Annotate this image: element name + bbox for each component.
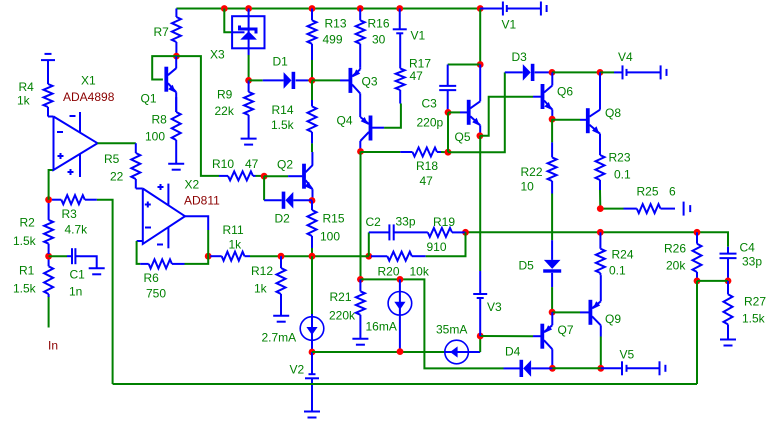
wire D5 anode lead	[551, 240, 553, 260]
label V3	[487, 300, 502, 314]
svg-text:AD811: AD811	[184, 194, 220, 208]
label R26 value	[666, 259, 686, 273]
wire V4 lead blue	[614, 71, 623, 73]
label R17	[409, 57, 431, 71]
label R11 value	[229, 238, 243, 252]
label R10 value	[245, 157, 259, 171]
wire to X1 plus input	[49, 170, 54, 200]
resistor R15	[308, 201, 317, 249]
junction D1/R13/R14/Q3-base	[309, 77, 316, 84]
svg-text:30: 30	[372, 33, 386, 47]
svg-text:C4: C4	[740, 241, 756, 255]
svg-text:Q2: Q2	[277, 158, 293, 172]
wire C3 node down to R18 node	[447, 112, 449, 152]
label X1	[81, 74, 96, 88]
wire Q2 base	[264, 175, 288, 177]
resistor R1	[44, 256, 53, 297]
wire V1a top lead	[399, 9, 401, 30]
junction V3/Q7-base/I3	[477, 333, 484, 340]
wire X3 vertical pin	[248, 9, 250, 56]
wire Q6 base lead	[533, 96, 541, 98]
resistor R22	[548, 142, 557, 193]
wire Q7c to Q9c	[552, 367, 600, 369]
svg-text:R2: R2	[20, 216, 36, 230]
resistor R18	[400, 148, 441, 157]
label R18 value	[420, 174, 434, 188]
resistor R13	[308, 9, 317, 61]
label V1 top	[502, 18, 517, 32]
svg-text:R1: R1	[19, 263, 35, 277]
svg-text:R7: R7	[154, 25, 170, 39]
capacitor C1	[67, 248, 80, 264]
resistor R17	[396, 33, 405, 103]
wire Q9 base	[552, 311, 580, 313]
svg-text:910: 910	[427, 240, 447, 254]
junction Q5-emitter	[477, 132, 484, 139]
svg-text:V1: V1	[502, 18, 517, 32]
label Q4	[337, 114, 353, 128]
resistor R23	[596, 150, 605, 190]
junction D3/Q6-collector	[549, 69, 556, 76]
label R6	[144, 271, 160, 285]
junction rail/R16	[357, 5, 364, 12]
junction R9/D1	[245, 77, 252, 84]
wire V2 node to 16mA node	[312, 351, 445, 353]
wire Q3 base	[312, 79, 340, 81]
wire D2 anode lead	[293, 199, 312, 201]
wire Q1 base loop	[152, 56, 176, 79]
svg-text:2.7mA: 2.7mA	[262, 331, 297, 345]
wire Q8 base lead	[580, 119, 586, 121]
wire X3 left pin entry	[224, 9, 232, 33]
wire node A up	[368, 232, 370, 256]
svg-text:R27: R27	[744, 295, 766, 309]
ground R8 ground	[168, 164, 184, 170]
diode D5	[543, 260, 561, 273]
svg-text:R20: R20	[378, 265, 400, 279]
svg-text:ADA4898: ADA4898	[63, 90, 115, 104]
svg-text:In: In	[48, 339, 58, 353]
wire R5 to X2 plus input	[136, 188, 143, 190]
label R12 value	[254, 282, 268, 296]
wire Q4 base lead	[372, 127, 384, 129]
wire Q4col node down to R21 node	[360, 152, 362, 280]
svg-text:499: 499	[323, 33, 343, 47]
wire top rail	[176, 8, 480, 10]
svg-text:47: 47	[245, 157, 259, 171]
capacitor C2	[369, 224, 394, 240]
svg-text:X2: X2	[185, 178, 200, 192]
wire Q4col to R18	[361, 151, 401, 153]
svg-text:1.5k: 1.5k	[13, 282, 37, 296]
label C2	[366, 215, 382, 229]
terminal V5 end	[660, 361, 666, 375]
junction R26 top	[694, 229, 701, 236]
svg-text:220k: 220k	[329, 309, 356, 323]
svg-text:22k: 22k	[215, 104, 235, 118]
svg-text:R13: R13	[325, 17, 347, 31]
label R20 value	[410, 265, 430, 279]
svg-text:R5: R5	[104, 152, 120, 166]
junction C3/Q5-base/R18col	[445, 109, 452, 116]
transistor Q3	[349, 68, 361, 94]
svg-text:R3: R3	[62, 207, 78, 221]
junction R15/I1	[309, 253, 316, 260]
transistor Q4	[360, 116, 372, 142]
junction rail/R13	[309, 5, 316, 12]
resistor R19	[394, 228, 466, 237]
svg-text:R18: R18	[416, 159, 438, 173]
label V5	[620, 348, 635, 362]
current source I2 16mA	[388, 279, 412, 351]
wire D5 to Q7/Q9 node	[551, 287, 553, 312]
label R23	[609, 151, 631, 165]
svg-text:R26: R26	[664, 242, 686, 256]
svg-text:R14: R14	[272, 103, 294, 117]
label R3	[62, 207, 78, 221]
resistor R26	[693, 232, 702, 281]
label D2	[275, 212, 291, 226]
label V2	[290, 363, 305, 377]
svg-text:R21: R21	[330, 290, 352, 304]
junction R23/R24 output node	[597, 229, 604, 236]
label R27	[744, 295, 766, 309]
label R8	[152, 113, 168, 127]
wire bottom feedback rail	[113, 383, 697, 385]
ground R21 ground	[352, 339, 368, 345]
label R15 value	[320, 230, 340, 244]
label R25 value	[669, 185, 676, 199]
label R26	[664, 242, 686, 256]
voltage source V1 (left)	[393, 29, 407, 33]
label R5 value	[110, 170, 124, 184]
wire X2 feedback loop	[137, 241, 141, 264]
wire I3 right up	[479, 336, 481, 352]
junction R26 bottom	[694, 278, 701, 285]
wire R10 to Q2 base node	[256, 175, 265, 177]
wire D3 anode lead	[505, 71, 523, 73]
label R13 value	[323, 33, 343, 47]
wire Q3-collector to Q4-emitter	[359, 93, 361, 117]
svg-text:16mA: 16mA	[366, 320, 397, 334]
wire Q3 base lead	[340, 79, 349, 81]
label R25	[637, 185, 659, 199]
terminal V1 top end	[541, 2, 547, 16]
label C2 value	[396, 215, 416, 229]
label R20	[378, 265, 400, 279]
wire Q8 base	[552, 119, 580, 121]
label R9 value	[215, 104, 235, 118]
junction X2out/R11/R6	[205, 253, 212, 260]
svg-text:1.5k: 1.5k	[13, 234, 37, 248]
ground R12 ground	[273, 316, 289, 322]
wire X2 output	[185, 216, 208, 230]
label D5	[519, 259, 535, 273]
wire D3 node to V4 node	[552, 71, 600, 73]
label R18	[416, 159, 438, 173]
wire V2 top lead	[311, 352, 313, 374]
junction mid node A	[365, 253, 372, 260]
label R21	[330, 290, 352, 304]
svg-text:V2: V2	[290, 363, 305, 377]
svg-text:33p: 33p	[742, 255, 762, 269]
wire node to R14	[311, 80, 313, 100]
junction R7/Q1	[173, 53, 180, 60]
subcircuit X3 box	[232, 16, 264, 48]
diode X3 zener	[232, 26, 257, 40]
wire V1b mid	[507, 8, 541, 10]
junction I2 top	[397, 276, 404, 283]
junction D5/Q7-emitter/Q9-base	[549, 309, 556, 316]
resistor R20	[371, 252, 426, 261]
wire Q5 base	[448, 111, 460, 113]
wire Q2 collector lead	[311, 152, 313, 166]
wire R25 stub	[600, 208, 623, 210]
svg-text:1n: 1n	[69, 285, 82, 299]
wire Q7 base wire	[480, 335, 533, 337]
label In	[48, 339, 58, 353]
wire R22 to D5	[551, 194, 553, 241]
svg-text:R15: R15	[323, 212, 345, 226]
wire output row	[466, 232, 729, 247]
junction rail/V1a	[396, 5, 403, 12]
label I1 value	[262, 331, 297, 345]
svg-text:D3: D3	[512, 50, 528, 64]
label R12	[251, 264, 273, 278]
diode D1	[284, 72, 296, 89]
svg-text:10: 10	[521, 180, 535, 194]
wire D1 to column	[308, 79, 312, 81]
svg-text:6: 6	[669, 185, 676, 199]
label R22 value	[521, 180, 535, 194]
svg-text:X1: X1	[81, 74, 96, 88]
label Q7	[558, 323, 574, 337]
transistor Q7	[540, 324, 552, 350]
svg-text:D5: D5	[519, 259, 535, 273]
voltage source V4	[623, 65, 627, 79]
wire R4 to X1 minus input	[48, 116, 54, 118]
label R3 value	[65, 223, 89, 237]
ground R27 ground	[720, 340, 736, 346]
svg-text:R12: R12	[251, 264, 273, 278]
resistor R5	[131, 143, 140, 188]
resistor R14	[308, 100, 317, 143]
resistor R3	[52, 195, 97, 204]
wire Q9 collector lead	[600, 325, 602, 336]
wire Q2 emitter lead	[312, 189, 314, 200]
wire R3 to feedback	[97, 200, 113, 384]
transistor Q2	[302, 164, 312, 190]
wire C1 stub	[49, 255, 67, 257]
svg-text:22: 22	[110, 170, 124, 184]
junction R25 tee	[597, 205, 604, 212]
label R11	[223, 223, 244, 237]
diode D2	[282, 192, 294, 209]
label V1 left	[411, 29, 426, 43]
svg-text:D4: D4	[505, 345, 521, 359]
label C4 value	[742, 255, 762, 269]
op-amp X1	[54, 112, 98, 177]
transistor Q9	[589, 300, 601, 326]
capacitor C4	[720, 247, 737, 281]
resistor R21	[356, 279, 365, 338]
svg-text:47: 47	[410, 69, 424, 83]
wire Q6 collector lead	[551, 72, 553, 85]
svg-text:47: 47	[420, 174, 434, 188]
svg-text:1k: 1k	[17, 94, 31, 108]
svg-text:0.1: 0.1	[609, 264, 626, 278]
label Q9	[605, 312, 621, 326]
label R2 value	[13, 234, 37, 248]
junction R10/Q2base/D2	[261, 173, 268, 180]
junction C3/Q5-collector	[477, 61, 484, 68]
wire R15 node down	[311, 256, 313, 314]
svg-text:Q1: Q1	[141, 92, 157, 106]
op-amp X2	[143, 184, 185, 249]
svg-text:220p: 220p	[417, 116, 444, 130]
label Q8	[605, 106, 621, 120]
label R7	[154, 25, 170, 39]
wire Q1 collector lead	[175, 56, 177, 68]
transistor Q1	[164, 67, 176, 93]
label R1	[19, 263, 35, 277]
wire Q4 collector lead	[359, 141, 361, 152]
label R15	[323, 212, 345, 226]
svg-text:1k: 1k	[254, 282, 268, 296]
wire feedback down right	[696, 281, 698, 384]
ground R9 ground	[241, 139, 257, 145]
label R1 value	[13, 282, 37, 296]
resistor R27	[724, 281, 733, 340]
junction I1/V2	[309, 349, 316, 356]
voltage source V offset	[41, 54, 55, 60]
svg-text:R4: R4	[19, 80, 35, 94]
wire up to D3 anode	[448, 72, 505, 152]
wire V2 bottom lead	[311, 378, 313, 411]
wire Q9 base lead	[580, 311, 589, 313]
wire X2 minus jog	[137, 240, 143, 242]
label Q5	[455, 130, 471, 144]
svg-text:R6: R6	[144, 271, 160, 285]
transistor Q6	[541, 84, 553, 110]
wire input stub In	[48, 296, 50, 328]
junction R2/R3/X1+	[45, 196, 52, 203]
label Q6	[557, 85, 573, 99]
junction Q2-emitter/D2/R15	[309, 197, 316, 204]
junction V4	[597, 69, 604, 76]
label R16 value	[372, 33, 386, 47]
junction Q9-collector/V5	[597, 365, 604, 372]
svg-text:10k: 10k	[410, 265, 430, 279]
svg-text:Q4: Q4	[337, 114, 353, 128]
svg-text:R24: R24	[612, 248, 634, 262]
voltage source V5	[622, 361, 627, 375]
label R6 value	[146, 287, 166, 301]
label R14	[272, 103, 294, 117]
junction R11/R12	[278, 253, 285, 260]
label R21 value	[329, 309, 356, 323]
svg-text:4.7k: 4.7k	[65, 223, 89, 237]
label X3	[210, 48, 225, 62]
label X2	[185, 178, 200, 192]
svg-text:C3: C3	[422, 97, 438, 111]
wire Q4 base to R17	[384, 104, 401, 128]
resistor R10	[219, 171, 256, 180]
wire V3 top lead	[479, 271, 481, 294]
wire R26/C4 bottom link	[697, 280, 728, 282]
svg-text:1.5k: 1.5k	[742, 312, 766, 326]
voltage source V2	[305, 374, 319, 378]
svg-text:R16: R16	[368, 17, 390, 31]
svg-text:Q9: Q9	[605, 312, 621, 326]
wire V1b lead	[480, 8, 503, 10]
wire Q5 emitter lead	[479, 125, 481, 136]
wire R9 node to D1	[249, 79, 263, 81]
svg-text:D2: D2	[275, 212, 291, 226]
wire V5 lead	[601, 367, 622, 369]
wire Q9 emitter lead	[600, 275, 602, 301]
wire Q3 emitter lead	[359, 67, 361, 69]
junction Q4-collector/R18	[357, 148, 364, 155]
svg-text:C1: C1	[70, 268, 86, 282]
svg-text:X3: X3	[210, 48, 225, 62]
label D1	[273, 55, 289, 69]
svg-text:20k: 20k	[666, 259, 686, 273]
label R19	[433, 215, 455, 229]
diode D4	[520, 360, 532, 377]
svg-text:35mA: 35mA	[436, 323, 467, 337]
wire battery to R4	[47, 60, 49, 84]
label C4	[740, 241, 756, 255]
transistor Q5	[467, 100, 480, 126]
wire Q6 emitter lead	[551, 110, 553, 120]
junction I2 bottom	[397, 348, 404, 355]
svg-text:R8: R8	[152, 113, 168, 127]
wire D1 anode lead	[263, 79, 284, 81]
svg-text:R22: R22	[521, 165, 543, 179]
resistor R4	[44, 80, 53, 117]
junction C4 bottom	[725, 278, 732, 285]
svg-text:Q7: Q7	[558, 323, 574, 337]
label D4	[505, 345, 521, 359]
wire D2 cathode lead	[264, 199, 282, 201]
label D3	[512, 50, 528, 64]
resistor R6	[140, 259, 184, 268]
label Q2	[277, 158, 293, 172]
svg-text:33p: 33p	[396, 215, 416, 229]
voltage source V1 (top)	[503, 2, 507, 16]
ground C1 ground	[89, 268, 105, 274]
svg-text:100: 100	[320, 230, 340, 244]
label Q1	[141, 92, 157, 106]
wire D4 anode lead	[531, 367, 552, 369]
label X1 model	[63, 90, 115, 104]
current source I3 35mA	[445, 340, 480, 364]
label R10	[212, 157, 234, 171]
terminal R25 end terminal	[684, 202, 691, 216]
resistor R7	[172, 9, 181, 57]
junction rail/X3 top	[245, 5, 252, 12]
svg-text:V3: V3	[487, 300, 502, 314]
label C1 value	[69, 285, 82, 299]
wire R13 to D1 node	[311, 60, 313, 80]
terminal V4 end	[661, 65, 667, 79]
wire R21 row	[360, 279, 503, 368]
wire Q7 collector lead	[551, 349, 553, 368]
wire R14 to Q2 collector	[311, 143, 313, 152]
resistor R12	[277, 256, 286, 316]
label R19 value	[427, 240, 447, 254]
